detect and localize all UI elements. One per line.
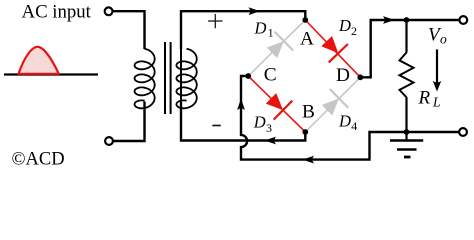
wire secondary bottom (-) to node B [181, 102, 305, 141]
current arrow on bottom return wire [303, 156, 315, 164]
svg-text:o: o [440, 31, 447, 46]
svg-text:D: D [253, 112, 266, 131]
terminal (top-left, AC input) [105, 7, 113, 15]
node B junction dot [302, 129, 308, 135]
transformer T1 secondary winding [180, 49, 182, 102]
terminal (top-right, output) [459, 16, 467, 24]
diode D4 (off, gray) [322, 98, 339, 115]
minus label (-) [212, 125, 221, 127]
transformer T1 primary winding [135, 49, 155, 109]
wire bridge edge B-D [305, 77, 360, 132]
svg-text:3: 3 [266, 121, 272, 135]
svg-text:R: R [418, 88, 431, 109]
transformer T1 core [164, 42, 166, 114]
current arrow on top wire [249, 7, 261, 15]
plus label (+) [208, 20, 222, 22]
resistor RL zigzag [400, 52, 414, 97]
current arrow on secondary bottom wire [265, 137, 277, 145]
diode D1 (off, gray) [267, 41, 284, 58]
resistor RL leads [405, 20, 407, 53]
node A junction dot [302, 17, 308, 23]
node C junction dot [245, 73, 251, 79]
svg-text:D: D [338, 16, 351, 35]
diode D2 (conducting, red) [321, 36, 338, 53]
AC input half-sine pulse [19, 47, 59, 74]
svg-text:D: D [254, 19, 267, 38]
wire bridge edge A-D [305, 20, 360, 77]
junction dot at RL top [404, 17, 410, 23]
svg-text:AC input: AC input [22, 1, 92, 22]
svg-text:2: 2 [351, 24, 357, 38]
junction dot at RL bottom / ground [404, 129, 410, 135]
svg-text:D: D [336, 65, 350, 86]
svg-text:L: L [432, 95, 441, 110]
wire bridge edge C-B [248, 76, 305, 132]
svg-text:C: C [264, 65, 277, 86]
wire node C to bottom return (with hop over secondary wire) [241, 76, 459, 160]
node D junction dot [357, 74, 363, 80]
diode D3 (conducting, red) [266, 93, 283, 110]
Vo polarity arrow (downward) [436, 49, 438, 83]
svg-text:4: 4 [351, 119, 357, 133]
svg-text:©ACD: ©ACD [12, 150, 65, 170]
wire secondary top (+) to node A [181, 11, 305, 49]
terminal (bottom-right, output) [459, 128, 467, 136]
wire node D to output top [360, 20, 459, 77]
svg-text:1: 1 [268, 26, 274, 40]
wire bridge edge C-A [248, 20, 305, 76]
current arrow on output top wire [383, 16, 395, 24]
wire from transformer primary bottom to bottom-left terminal [113, 102, 145, 142]
svg-text:A: A [300, 28, 314, 49]
svg-text:D: D [338, 112, 351, 131]
current arrow up toward C [237, 99, 245, 111]
terminal (bottom-left, AC input) [105, 137, 113, 145]
svg-text:B: B [302, 102, 315, 123]
wire: AC source axis line [4, 73, 98, 75]
ground symbol [405, 132, 407, 141]
wire from top-left terminal to transformer primary top [113, 11, 145, 49]
